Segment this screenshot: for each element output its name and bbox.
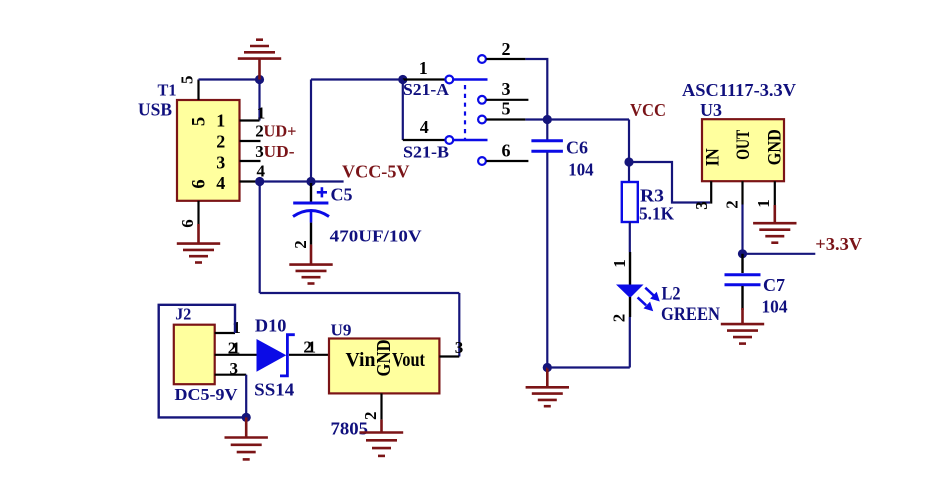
switch contact pin 2 xyxy=(478,55,486,63)
svg-text:ASC1117-3.3V: ASC1117-3.3V xyxy=(682,80,796,100)
C5 lower blue stub xyxy=(310,211,313,223)
C5 top plate xyxy=(293,202,328,205)
ground below U3 xyxy=(753,205,796,243)
D10 schottky bar xyxy=(280,335,295,376)
wire to switch pin 4 xyxy=(403,139,445,141)
svg-text:2: 2 xyxy=(723,200,742,209)
svg-text:3: 3 xyxy=(216,153,225,173)
switch pin 6 stub xyxy=(486,160,528,162)
wire VCC node to right xyxy=(547,118,629,120)
wire horizontal to U9 Vout xyxy=(260,292,460,294)
C5 upper lead xyxy=(310,183,312,202)
switch contact pin 4 xyxy=(445,136,453,144)
svg-text:470UF/10V: 470UF/10V xyxy=(330,226,423,245)
svg-text:D10: D10 xyxy=(255,316,287,336)
ground below USB xyxy=(177,224,220,263)
wire R3 to LED xyxy=(629,222,631,252)
svg-text:UD+: UD+ xyxy=(264,122,297,141)
svg-text:U3: U3 xyxy=(700,100,722,120)
U3 GND pin stub xyxy=(774,181,776,205)
ground below J2 xyxy=(225,417,268,459)
junction top xyxy=(255,75,264,84)
svg-text:5: 5 xyxy=(178,75,197,84)
junction at mid ground xyxy=(543,363,552,372)
svg-text:Vin: Vin xyxy=(346,349,376,371)
junction VCC node xyxy=(543,115,552,124)
pin 5 stub (top) xyxy=(197,80,199,101)
LED light arrow 1 xyxy=(645,288,660,302)
switch lever B xyxy=(454,139,488,141)
pin number 5 (rotated, outside) xyxy=(178,75,197,84)
svg-text:2: 2 xyxy=(610,314,629,323)
svg-text:+3.3V: +3.3V xyxy=(815,234,862,254)
junction at J2 ground xyxy=(242,413,251,422)
wire VCC node down to C6 xyxy=(546,120,548,141)
svg-text:104: 104 xyxy=(762,296,788,316)
pin name GND (rotated) xyxy=(373,340,395,377)
ground (inverted, above USB) xyxy=(238,40,281,80)
pin name GND (rotated) xyxy=(764,129,785,165)
C5 pin number 2 (rotated) xyxy=(291,240,310,249)
ground below C5 xyxy=(289,245,332,284)
svg-text:DC5-9V: DC5-9V xyxy=(175,385,239,404)
svg-text:1: 1 xyxy=(308,338,317,357)
svg-text:Vout: Vout xyxy=(392,349,425,371)
C7 top plate xyxy=(725,273,761,276)
svg-text:GND: GND xyxy=(764,129,785,165)
svg-text:104: 104 xyxy=(568,160,594,180)
U3 body xyxy=(702,119,784,181)
switch contact pin 3 xyxy=(478,96,486,104)
svg-text:1: 1 xyxy=(232,339,241,358)
node VCC-5V junction at pin4 xyxy=(255,177,264,186)
svg-text:VCC: VCC xyxy=(630,100,666,120)
pin number 2 (LED, rotated) xyxy=(610,314,629,323)
C5 curved plate xyxy=(293,211,329,217)
junction at C5 xyxy=(306,177,315,186)
switch contact pin 5 xyxy=(478,116,486,124)
J2 pin 3 stub xyxy=(215,374,247,376)
svg-text:3: 3 xyxy=(692,201,711,210)
svg-text:L2: L2 xyxy=(662,285,681,305)
connector J2 body xyxy=(174,325,215,385)
svg-text:6: 6 xyxy=(190,179,210,188)
junction at switch pin1 xyxy=(398,75,407,84)
resistor R3 xyxy=(622,182,638,222)
LED cathode lead xyxy=(629,297,631,317)
svg-text:3: 3 xyxy=(230,359,239,378)
svg-text:4: 4 xyxy=(420,117,429,137)
U9 GND pin stub xyxy=(380,393,382,419)
svg-text:1: 1 xyxy=(754,199,773,208)
svg-text:UD-: UD- xyxy=(264,142,295,161)
svg-text:IN: IN xyxy=(703,148,724,166)
pin 1 stub xyxy=(240,119,260,121)
wire to switch pin1 xyxy=(311,78,403,80)
svg-text:3: 3 xyxy=(502,79,511,99)
switch contact pin 1 xyxy=(445,76,453,84)
C5 lower lead xyxy=(310,223,312,245)
U3 IN pin stub xyxy=(710,181,712,203)
pin number 2 (U3, rotated) xyxy=(723,200,742,209)
svg-text:2: 2 xyxy=(291,240,310,249)
wire junction down to pin 1 xyxy=(258,80,260,121)
switch lever A xyxy=(454,78,488,80)
ground below C7 xyxy=(721,308,764,344)
svg-text:U9: U9 xyxy=(331,320,352,339)
wire VCC down xyxy=(628,120,630,163)
svg-text:5.1K: 5.1K xyxy=(639,204,674,224)
svg-text:J2: J2 xyxy=(175,304,191,323)
pin number 1 (LED, rotated) xyxy=(610,259,629,268)
LED anode lead xyxy=(629,252,631,285)
wire pin3 down to ground xyxy=(245,375,247,418)
svg-text:C7: C7 xyxy=(763,275,785,295)
LED L2 triangle xyxy=(616,285,644,299)
wire pin4 junction down to U9 Vout net xyxy=(259,182,261,294)
wire pin5 to ground junction xyxy=(199,78,260,80)
svg-text:1: 1 xyxy=(419,58,428,78)
pin number 1 (U3, rotated) xyxy=(754,199,773,208)
wire pin2 to C6 node xyxy=(525,59,547,120)
switch contact pin 6 xyxy=(478,157,486,165)
wire LED down xyxy=(629,317,631,368)
svg-text:4: 4 xyxy=(216,173,225,193)
svg-text:2: 2 xyxy=(216,132,225,152)
pin 4 stub xyxy=(240,180,260,182)
wire down to U9 Vout pin xyxy=(458,293,460,357)
C7 upper lead xyxy=(741,254,743,273)
pin name OUT (rotated) xyxy=(733,130,754,160)
switch pin 5 stub xyxy=(486,118,525,120)
LED light arrow 2 xyxy=(638,297,654,311)
svg-text:1: 1 xyxy=(216,111,225,131)
C6 top plate xyxy=(531,139,563,142)
svg-text:5: 5 xyxy=(190,117,210,126)
C5 plus sign xyxy=(317,187,327,197)
svg-text:1: 1 xyxy=(257,103,266,122)
wire junction down to R3 xyxy=(628,162,630,182)
svg-text:6: 6 xyxy=(502,140,511,160)
svg-text:R3: R3 xyxy=(640,185,664,205)
wire C6 down to ground junction xyxy=(546,153,548,368)
wire OUT pin down xyxy=(741,205,743,254)
wire junction to U3 IN xyxy=(629,162,710,203)
U9 Vout pin stub xyxy=(439,355,459,357)
ground mid xyxy=(526,368,569,407)
svg-text:2: 2 xyxy=(502,39,511,59)
pin 6 stub (bottom) xyxy=(197,201,199,224)
wire pin5 to junction xyxy=(525,118,547,120)
C7 lower lead xyxy=(741,286,743,310)
wire junction down to S21-B xyxy=(402,80,404,141)
pin 2 stub xyxy=(240,140,261,142)
svg-text:C6: C6 xyxy=(566,138,588,158)
svg-text:3: 3 xyxy=(455,338,464,357)
wire LED to ground junction xyxy=(547,366,630,368)
svg-text:OUT: OUT xyxy=(733,130,754,160)
svg-text:S21-A: S21-A xyxy=(403,80,450,99)
wire J2 pin1 loop to ground xyxy=(159,305,247,418)
junction +3.3V node xyxy=(738,249,747,258)
svg-text:6: 6 xyxy=(178,219,197,228)
svg-text:1: 1 xyxy=(232,318,241,337)
C7 bottom plate xyxy=(725,283,761,286)
pin name IN (rotated) xyxy=(703,148,724,166)
J2 pin 1 stub xyxy=(215,332,235,334)
wire C5 junction up xyxy=(310,80,312,182)
U3 OUT pin stub xyxy=(741,181,743,204)
svg-text:2: 2 xyxy=(255,122,264,141)
wire pin4 to C5 xyxy=(260,180,344,182)
svg-text:C5: C5 xyxy=(331,185,353,205)
wire D10 to U9 Vin xyxy=(289,354,329,356)
svg-text:T1: T1 xyxy=(158,81,177,100)
svg-text:7805: 7805 xyxy=(331,418,369,438)
pin 3 stub xyxy=(240,160,261,162)
svg-text:1: 1 xyxy=(610,259,629,268)
svg-text:5: 5 xyxy=(502,99,511,119)
connector T1 body xyxy=(177,100,240,201)
svg-text:VCC-5V: VCC-5V xyxy=(342,161,410,181)
pin number 3 (U3, rotated) xyxy=(692,201,711,210)
J2 pin 2 stub xyxy=(215,354,257,356)
pin name 5 (rotated, inside box) xyxy=(190,117,210,126)
svg-text:S21-B: S21-B xyxy=(403,143,449,162)
svg-text:GREEN: GREEN xyxy=(661,305,721,325)
svg-text:USB: USB xyxy=(138,100,172,120)
switch pin 1 stub xyxy=(403,78,445,80)
svg-text:3: 3 xyxy=(255,142,264,161)
ground below U9 xyxy=(360,420,403,456)
pin number 2 (U9, rotated) xyxy=(361,412,380,421)
switch pin 3 stub xyxy=(486,99,528,101)
switch linkage (dashed) xyxy=(464,85,466,139)
U9 body xyxy=(329,339,439,394)
switch pin 2 stub xyxy=(486,58,525,60)
wire to +3.3V label xyxy=(743,253,816,255)
junction R3 top xyxy=(624,157,633,166)
pin name 6 (rotated, inside box) xyxy=(190,179,210,188)
pin number 6 (rotated, outside) xyxy=(178,219,197,228)
D10 triangle xyxy=(257,339,287,372)
svg-text:SS14: SS14 xyxy=(254,380,294,400)
C6 bottom plate xyxy=(531,150,563,153)
